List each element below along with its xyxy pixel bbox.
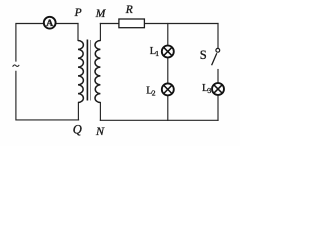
- svg-text:N: N: [95, 124, 105, 138]
- wire: right branch down to switch: [217, 24, 219, 49]
- lamp L2: [162, 83, 174, 95]
- svg-text:1: 1: [155, 49, 159, 58]
- svg-text:A: A: [46, 18, 53, 29]
- wire: primary left lower + bottom: [16, 71, 79, 120]
- switch S: [212, 48, 220, 65]
- transformer core line 1: [86, 40, 88, 101]
- wire: switch to lamp L3: [217, 70, 219, 84]
- transformer secondary coil (M-N): [95, 41, 100, 103]
- svg-text:R: R: [125, 4, 133, 16]
- wire: N lead from secondary coil to bottom: [99, 103, 101, 121]
- svg-text:S: S: [200, 48, 207, 62]
- wire: primary top (source to P corner): [16, 24, 78, 62]
- lamp L3: [212, 83, 224, 95]
- svg-text:P: P: [74, 7, 82, 19]
- wire: between lamp L1 and lamp L2: [167, 58, 169, 84]
- wire: P lead down to primary coil: [77, 24, 79, 41]
- svg-text:3: 3: [208, 86, 212, 95]
- ammeter A: [44, 17, 56, 29]
- transformer primary coil (P-Q): [78, 41, 83, 103]
- svg-text:M: M: [95, 8, 107, 20]
- svg-text:Q: Q: [73, 123, 82, 137]
- transformer core line 2: [90, 40, 92, 101]
- wire: resistor to top-right corner: [144, 23, 218, 25]
- svg-text:2: 2: [152, 89, 156, 98]
- wire: lamp L3 down to bottom-right corner: [217, 95, 219, 120]
- resistor R: [119, 19, 144, 28]
- wire: lamp L2 down to bottom junction: [167, 95, 169, 120]
- wire: middle branch junction to lamp L1: [167, 24, 169, 46]
- lamp L1: [162, 46, 174, 58]
- AC source tilde: [13, 65, 20, 67]
- wire: M lead from secondary coil up to top wire: [99, 24, 101, 41]
- wire: secondary top to resistor: [100, 23, 118, 25]
- wire: secondary bottom: [100, 119, 218, 121]
- wire: Q lead from primary coil to bottom: [77, 103, 79, 120]
